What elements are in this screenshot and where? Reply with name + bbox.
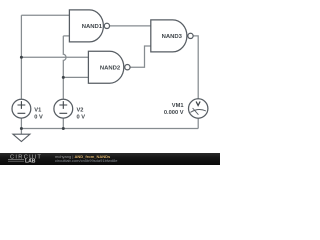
svg-text:0.000 V: 0.000 V (164, 110, 184, 116)
svg-text:V2: V2 (77, 108, 84, 114)
svg-text:0 V: 0 V (34, 114, 43, 120)
svg-text:NAND2: NAND2 (100, 65, 121, 71)
svg-text:LAB: LAB (25, 158, 36, 164)
svg-text:circuitlab.com/cn5b99sda91bfwd: circuitlab.com/cn5b99sda91bfwd8e (55, 158, 118, 163)
svg-text:0 V: 0 V (77, 114, 86, 120)
svg-text:VM1: VM1 (172, 103, 184, 109)
svg-text:V1: V1 (34, 108, 41, 114)
svg-text:NAND1: NAND1 (82, 24, 103, 30)
svg-text:NAND3: NAND3 (162, 34, 183, 40)
